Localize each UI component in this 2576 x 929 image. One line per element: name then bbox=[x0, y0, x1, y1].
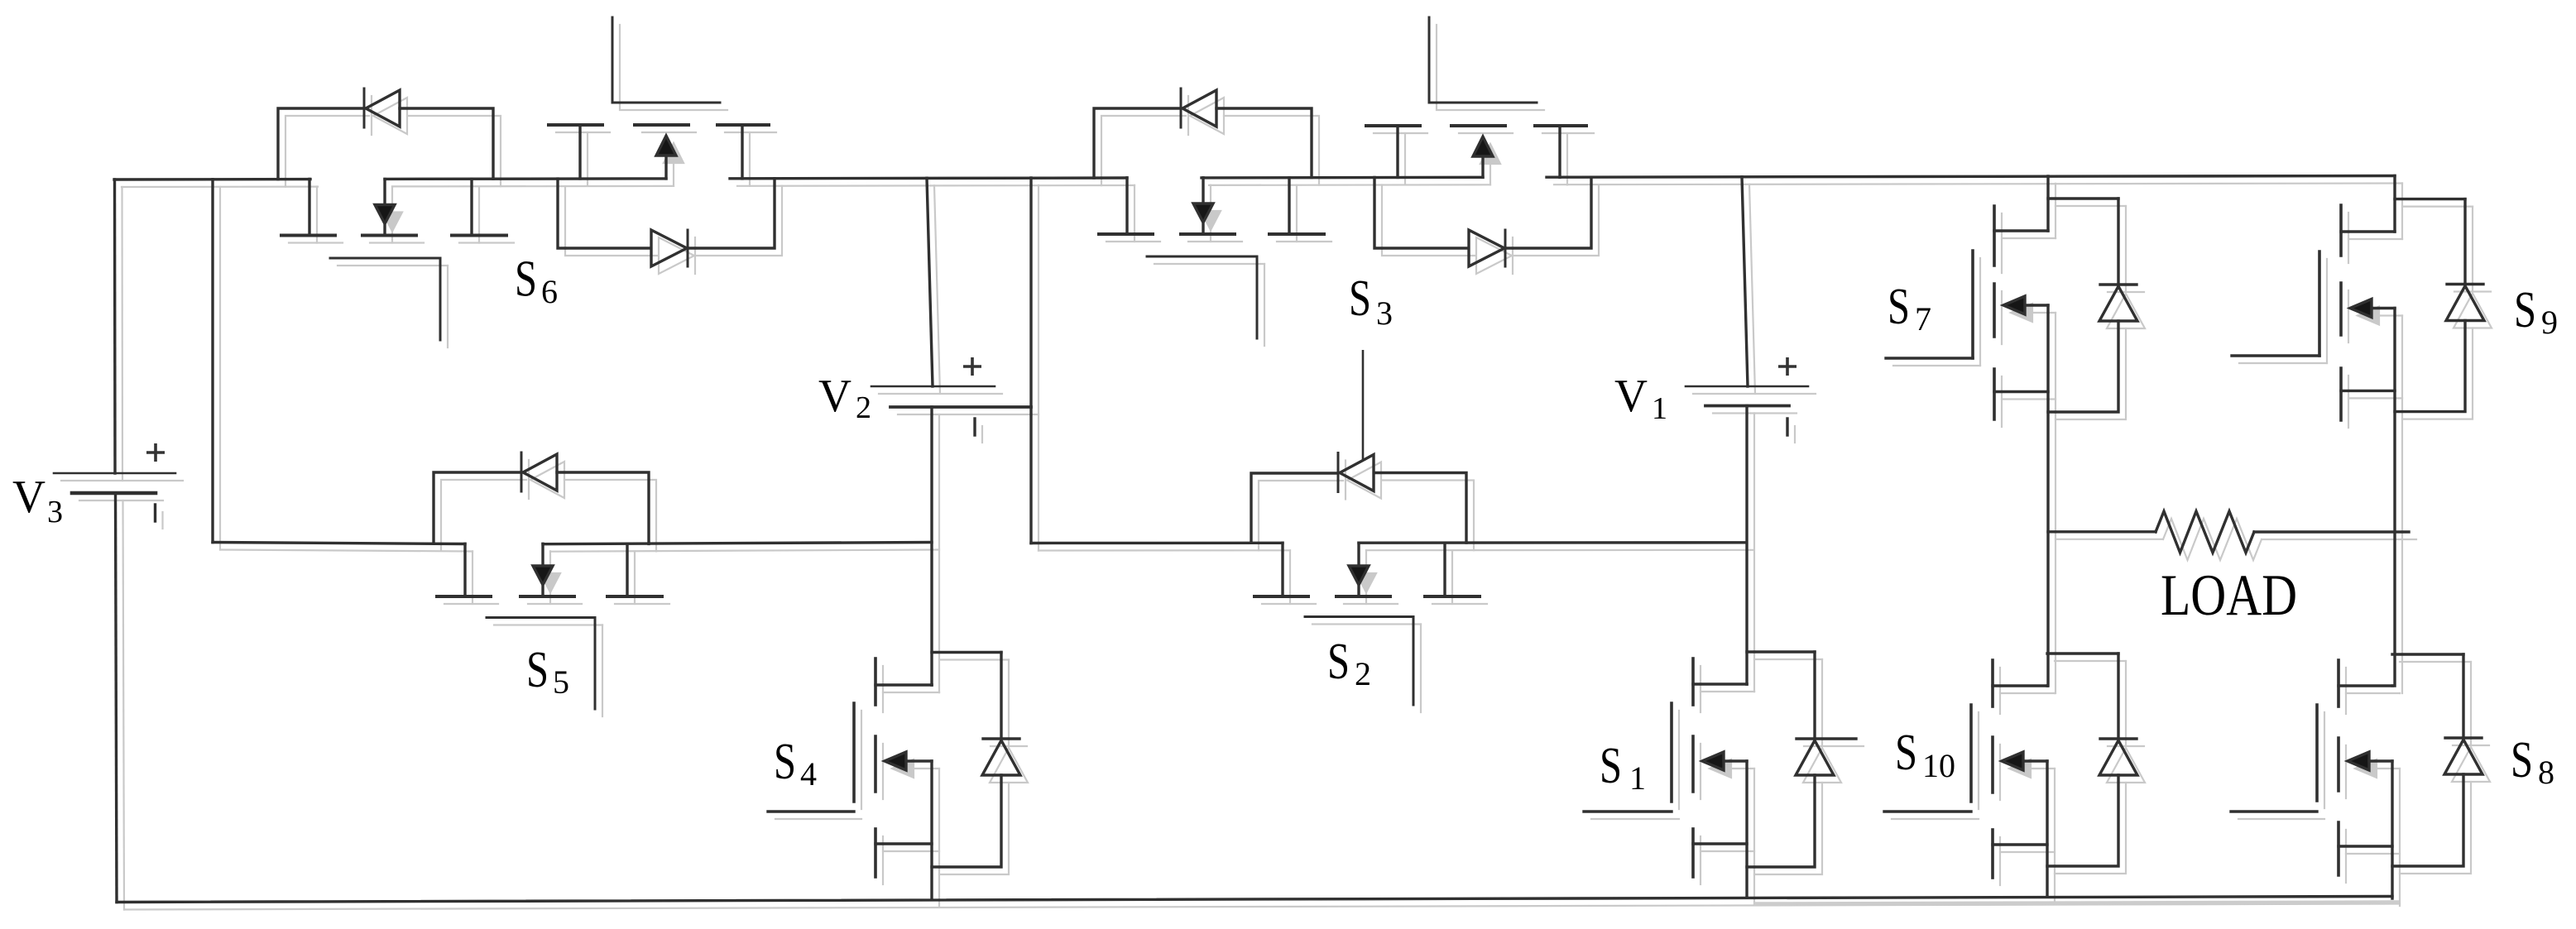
scan ghost of wire transistor S10 source leg bbox=[2054, 769, 2056, 904]
transistor S6 source bar bbox=[452, 234, 506, 237]
wire cell-2 mid feeder bbox=[1029, 178, 1032, 544]
wire V1 positive lead bbox=[1742, 177, 1748, 386]
wire transistor S9 diode bottom lead bbox=[2395, 321, 2465, 412]
scan ghost of transistor S10 diode cathode bar bbox=[2108, 745, 2144, 747]
wire transistor S3b (series switch) body lead bbox=[1481, 156, 1484, 177]
wire transistor S3 gate lead bbox=[1256, 256, 1259, 338]
transistor S4 diode lead bbox=[1000, 653, 1002, 740]
wire upper pair diode loop left (cell 2) bbox=[1374, 178, 1467, 249]
wire transistor S10 source lead bbox=[1993, 843, 2047, 845]
scan ghost of battery V1 negative plate bbox=[1713, 412, 1796, 414]
svg-text:8: 8 bbox=[2538, 754, 2554, 791]
scan ghost of transistor S4 diode triangle bbox=[990, 748, 1028, 783]
scan ghost of transistor S6 gate plate bbox=[338, 265, 448, 266]
wire cell-1 mid rail left bbox=[213, 543, 465, 544]
svg-text:6: 6 bbox=[541, 273, 558, 310]
scan ghost of transistor S1 channel segment 3 bbox=[1700, 836, 1701, 884]
wire transistor S6 gate lead bbox=[439, 258, 442, 340]
wire transistor S2 gate lead bbox=[1413, 617, 1415, 706]
scan ghost of wire S2 diode loop left bbox=[1259, 481, 1343, 550]
scan ghost of transistor S9 diode cathode bar bbox=[2454, 290, 2491, 292]
wire transistor S1 diode top branch bbox=[1747, 650, 1815, 653]
wire transistor S5 gate lead bbox=[594, 618, 597, 710]
scan ghost of transistor S1 diode triangle bbox=[1803, 748, 1841, 783]
scan ghost of wire cell-1 mid rail left bbox=[220, 550, 473, 552]
scan ghost of wire upper pair diode loop right (cell 1) bbox=[696, 186, 782, 256]
scan ghost of transistor S7 body arrow bbox=[2011, 304, 2032, 322]
scan ghost of wire transistor S8 drain lead bbox=[2399, 692, 2401, 694]
wire transistor S4 body lead bbox=[906, 759, 932, 762]
scan ghost of wire V2 positive lead bbox=[934, 185, 940, 394]
wire top rail segment 3 bbox=[730, 176, 1127, 180]
svg-text:3: 3 bbox=[47, 495, 63, 529]
transistor S4 diode cathode bar bbox=[983, 737, 1019, 740]
scan ghost of battery V2 positive plate bbox=[879, 393, 1002, 395]
transistor S9 diode triangle bbox=[2446, 286, 2484, 321]
scan ghost of battery V3 minus tick bbox=[161, 512, 163, 529]
wire transistor S8 source lead bbox=[2339, 845, 2392, 847]
scan ghost of transistor S6 source bar bbox=[459, 242, 514, 243]
svg-text:10: 10 bbox=[1922, 747, 1955, 784]
wire transistor S7 diode bottom lead bbox=[2048, 321, 2118, 412]
transistor S9 channel segment 2 bbox=[2339, 283, 2343, 335]
battery V2 plus sign bbox=[963, 357, 981, 376]
scan ghost of wire transistor S9 gate lead bbox=[2239, 362, 2327, 364]
scan ghost of wire transistor S10 diode top branch bbox=[2055, 660, 2126, 662]
scan ghost of transistor S1 channel segment 1 bbox=[1700, 666, 1701, 712]
transistor S3 body bar bbox=[1181, 232, 1235, 236]
wire cell-1 mid rail right bbox=[543, 543, 932, 544]
scan ghost of battery V1 minus tick bbox=[1794, 426, 1796, 443]
transistor S3 source bar bbox=[1269, 232, 1324, 236]
scan ghost of wire transistor S3b (series switch) body lead bbox=[1489, 164, 1491, 184]
transistor S3 drain bar bbox=[1099, 232, 1153, 236]
transistor S10 diode triangle bbox=[2099, 740, 2137, 775]
scan ghost of transistor S6 body arrow bbox=[382, 213, 402, 232]
scan ghost of wire top rail segment 2 bbox=[392, 185, 674, 188]
transistor S6b (series switch) body bar bbox=[635, 123, 688, 127]
wire transistor S1 drain lead bbox=[1745, 682, 1748, 685]
wire bottom rail scan ghost bbox=[1754, 903, 2399, 904]
scan ghost of transistor S8 gate bar bbox=[2324, 712, 2325, 808]
wire transistor S9 body lead bbox=[2372, 307, 2395, 309]
battery V3 negative plate bbox=[72, 491, 156, 496]
wire transistor S10 source leg bbox=[2046, 761, 2048, 897]
scan ghost of transistor S6 drain bar bbox=[289, 242, 343, 243]
scan ghost of wire top rail segment 4 bbox=[1209, 184, 1490, 186]
scan ghost of diode D6 cathode bar bbox=[371, 96, 372, 135]
wire transistor S7 source lead bbox=[1994, 390, 2048, 393]
scan ghost of wire LOAD right lead bbox=[2262, 539, 2416, 540]
scan ghost of transistor S4 channel segment 2 bbox=[882, 744, 884, 799]
scan ghost of transistor S10 channel segment 3 bbox=[1999, 837, 2001, 885]
wire top rail segment 4 bbox=[1202, 176, 1483, 180]
transistor S8 channel segment 2 bbox=[2337, 738, 2340, 791]
scan ghost of transistor S6b (series switch) body arrow bbox=[664, 143, 684, 163]
wire transistor S4 drain connection bbox=[875, 683, 932, 686]
scan ghost of wire transistor S10 source lead bbox=[2000, 851, 2055, 853]
scan ghost of wire transistor S8 source leg bbox=[2399, 769, 2401, 906]
scan ghost of transistor S10 diode lead bbox=[2125, 661, 2127, 746]
transistor S1 gate bar bbox=[1670, 703, 1673, 802]
wire S2 diode loop left bbox=[1251, 473, 1336, 543]
transistor S8 body arrow bbox=[2348, 752, 2369, 770]
battery V1 positive plate bbox=[1686, 385, 1808, 388]
scan ghost of diode D3 cathode bar bbox=[1187, 96, 1189, 135]
scan ghost of wire S2 diode loop right bbox=[1382, 481, 1474, 551]
scan ghost of battery V1 positive plate bbox=[1693, 393, 1816, 395]
scan ghost of diode D3b triangle bbox=[1476, 237, 1512, 274]
wire transistor S4 source leg bbox=[930, 761, 933, 898]
transistor S10 diode lead bbox=[2117, 654, 2119, 739]
scan ghost of transistor S1 diode lead bbox=[1821, 659, 1823, 746]
transistor S7 diode cathode bar bbox=[2100, 283, 2137, 285]
scan ghost of wire V3 positive lead bbox=[121, 187, 123, 481]
transistor S9 channel segment 3 bbox=[2339, 368, 2343, 420]
wire V3 negative lead bbox=[116, 493, 118, 903]
scan ghost of transistor S3b (series switch) body arrow bbox=[1480, 144, 1500, 164]
wire transistor S1 body lead bbox=[1724, 759, 1747, 762]
scan ghost of wire transistor S3 gate lead bbox=[1264, 264, 1265, 346]
transistor S10 body arrow bbox=[2002, 752, 2023, 770]
transistor S8 channel segment 3 bbox=[2337, 822, 2340, 875]
battery V1 plus sign bbox=[1778, 357, 1796, 376]
wire transistor S9 drain lead bbox=[2393, 176, 2396, 232]
battery V2 minus tick bbox=[973, 419, 976, 435]
scan ghost of transistor S9 channel segment 1 bbox=[2348, 213, 2349, 263]
scan ghost of wire transistor S7 source leg bbox=[2055, 313, 2056, 693]
wire transistor S7 source leg bbox=[2046, 305, 2049, 686]
wire transistor S6b (series switch) drain lead bbox=[578, 125, 581, 179]
svg-text:S: S bbox=[1349, 271, 1371, 327]
wire transistor S4 diode top branch bbox=[932, 651, 1001, 654]
wire transistor S7 diode top branch bbox=[2048, 197, 2118, 199]
battery V3 minus tick bbox=[154, 505, 156, 521]
scan ghost of wire transistor S10 drain connection bbox=[2000, 692, 2055, 694]
scan ghost of wire transistor S7 drain connection bbox=[2002, 237, 2056, 239]
scan ghost of wire S3 diode loop left bbox=[1101, 116, 1186, 185]
svg-text:V: V bbox=[12, 472, 46, 523]
scan ghost of wire transistor S5 body lead bbox=[549, 551, 551, 573]
transistor S4 channel segment 2 bbox=[874, 736, 877, 792]
scan ghost of transistor S6b (series switch) drain bar bbox=[556, 132, 610, 133]
transistor S7 gate bar bbox=[1971, 251, 1974, 358]
scan ghost of transistor S2 source bar bbox=[1432, 603, 1487, 605]
wire transistor S9 gate lead bbox=[2232, 354, 2319, 357]
scan ghost of transistor S5 body arrow bbox=[540, 573, 560, 592]
wire top rail segment 2 bbox=[385, 177, 666, 180]
transistor S6 gate plate bbox=[330, 257, 440, 260]
wire transistor S2 source lead bbox=[1443, 543, 1446, 596]
scan ghost of diode D2 triangle bbox=[1347, 462, 1381, 499]
svg-text:1: 1 bbox=[1629, 759, 1646, 797]
scan ghost of battery V2 negative plate bbox=[898, 414, 1039, 415]
transistor S7 channel segment 2 bbox=[1993, 284, 1996, 337]
scan ghost of transistor S4 gate bar bbox=[861, 711, 862, 809]
scan ghost of wire V3 negative lead bbox=[123, 500, 125, 910]
scan ghost of transistor S1 diode cathode bar bbox=[1804, 745, 1864, 747]
svg-text:S: S bbox=[1327, 634, 1350, 690]
transistor S5 body arrow bbox=[533, 566, 553, 585]
scan ghost of transistor S3 gate plate bbox=[1154, 263, 1264, 265]
scan ghost of wire S5 diode loop right bbox=[564, 480, 656, 551]
scan ghost of wire transistor S4 gate lead bbox=[775, 818, 861, 820]
scan ghost of wire transistor S9 source leg bbox=[2401, 316, 2403, 694]
scan ghost of wire transistor S5 gate lead bbox=[602, 625, 603, 717]
scan ghost of wire transistor S8 drain connection bbox=[2346, 692, 2400, 694]
wire S3 diode loop left bbox=[1094, 108, 1178, 178]
diode D6 triangle bbox=[366, 90, 400, 127]
scan ghost of wire upper pair diode loop right (cell 2) bbox=[1513, 184, 1599, 256]
svg-text:V: V bbox=[1614, 371, 1648, 422]
wire transistor S3 drain lead bbox=[1125, 178, 1128, 234]
transistor S1 diode triangle bbox=[1796, 740, 1834, 775]
svg-text:V: V bbox=[818, 371, 851, 422]
label line S3 pointer bbox=[1362, 350, 1365, 460]
wire transistor S7 drain connection bbox=[1994, 229, 2048, 232]
wire cell-1 mid feeder bbox=[211, 180, 213, 543]
scan ghost of battery V2 minus tick bbox=[981, 426, 983, 443]
wire transistor S6 drain lead bbox=[308, 180, 310, 236]
transistor S9 body arrow bbox=[2350, 299, 2372, 318]
scan ghost of wire cell-2 mid rail right bbox=[1366, 549, 1753, 552]
svg-text:S: S bbox=[526, 642, 549, 698]
scan ghost of wire S3 diode loop right bbox=[1224, 116, 1319, 185]
svg-text:S: S bbox=[1895, 725, 1917, 781]
wire transistor S1 source leg bbox=[1745, 761, 1748, 898]
transistor S5 drain bar bbox=[437, 595, 491, 598]
scan ghost of transistor S8 diode lead bbox=[2470, 662, 2472, 745]
scan ghost of transistor S4 diode cathode bar bbox=[991, 745, 1027, 747]
transistor S8 gate bar bbox=[2315, 705, 2319, 801]
scan ghost of transistor S3 body arrow bbox=[1201, 211, 1221, 230]
transistor S8 diode triangle bbox=[2444, 740, 2482, 774]
scan ghost of wire transistor S1 diode bottom lead bbox=[1754, 783, 1822, 874]
scan ghost of transistor S9 channel segment 3 bbox=[2348, 376, 2349, 428]
scan ghost of wire transistor S5 drain lead bbox=[472, 551, 473, 604]
transistor S9 channel segment 1 bbox=[2339, 205, 2343, 256]
transistor S6 body bar bbox=[362, 234, 416, 237]
wire transistor S7 drain lead bbox=[2046, 176, 2049, 231]
scan ghost of transistor S2 body bar bbox=[1344, 603, 1398, 605]
battery V1 minus tick bbox=[1786, 419, 1788, 435]
transistor S7 diode lead bbox=[2117, 199, 2119, 285]
scan ghost of transistor S7 channel segment 3 bbox=[2001, 376, 2003, 427]
wire transistor S10 drain connection bbox=[1993, 684, 2047, 687]
scan ghost of diode D6b cathode bar bbox=[694, 237, 696, 274]
scan ghost of transistor S7 diode cathode bar bbox=[2108, 291, 2144, 293]
scan ghost of wire top rail segment 5 bbox=[1554, 184, 2402, 185]
scan ghost of wire cell-2 mid rail left bbox=[1039, 549, 1290, 551]
transistor S4 channel segment 3 bbox=[874, 829, 877, 877]
scan ghost of transistor S9 body arrow bbox=[2358, 307, 2379, 325]
scan ghost of transistor S9 diode lead bbox=[2472, 207, 2473, 292]
scan ghost of transistor S7 channel segment 2 bbox=[2001, 291, 2003, 344]
wire transistor S9 diode top branch bbox=[2395, 198, 2465, 200]
wire LOAD left lead bbox=[2048, 530, 2156, 533]
diode D3b triangle bbox=[1469, 230, 1504, 266]
svg-text:2: 2 bbox=[1355, 655, 1371, 692]
scan ghost of wire transistor S9 source lead bbox=[2348, 397, 2402, 399]
wire upper pair diode loop right (cell 2) bbox=[1506, 177, 1591, 248]
scan ghost of diode D6 triangle bbox=[373, 98, 407, 134]
scan ghost of wire transistor S1 body lead bbox=[1731, 768, 1754, 769]
wire transistor S6 source lead bbox=[470, 180, 473, 236]
scan ghost of wire transistor S6 drain lead bbox=[316, 187, 318, 243]
transistor S10 channel segment 1 bbox=[1991, 660, 1994, 706]
wire S5 diode loop right bbox=[557, 472, 649, 544]
scan ghost of wire S6 diode loop right bbox=[407, 116, 501, 186]
scan ghost of transistor S3 drain bar bbox=[1106, 241, 1160, 242]
transistor S3 gate plate bbox=[1147, 256, 1257, 258]
transistor S8 channel segment 1 bbox=[2337, 660, 2340, 706]
transistor S3b (series switch) drain bar bbox=[1366, 124, 1420, 127]
transistor S1 channel segment 3 bbox=[1691, 829, 1695, 877]
transistor S2 gate plate bbox=[1305, 615, 1413, 618]
wire S5 diode loop left bbox=[434, 472, 519, 544]
scan ghost of transistor S5 body bar bbox=[528, 603, 582, 605]
scan ghost of wire transistor S2 drain lead bbox=[1289, 550, 1291, 604]
scan ghost of transistor S9 diode triangle bbox=[2454, 294, 2492, 328]
svg-text:S: S bbox=[1888, 279, 1910, 335]
transistor S3b (series switch) body bar bbox=[1451, 124, 1505, 127]
wire top rail segment 5 bbox=[1547, 176, 2395, 178]
scan ghost of wire transistor S4 body lead bbox=[914, 768, 939, 769]
wire transistor S4 drain lead bbox=[930, 683, 933, 686]
scan ghost of transistor S10 channel segment 2 bbox=[1999, 745, 2001, 800]
scan ghost of wire transistor S4 diode top branch bbox=[939, 658, 1009, 660]
wire transistor S9 drain connection bbox=[2341, 230, 2395, 232]
scan ghost of transistor S10 gate bar bbox=[1978, 712, 1979, 809]
scan ghost of wire S6 diode loop left bbox=[285, 116, 369, 187]
scan ghost of transistor S9 gate bar bbox=[2326, 259, 2328, 363]
wire top rail segment 1 bbox=[114, 178, 310, 181]
svg-text:9: 9 bbox=[2541, 304, 2558, 341]
transistor S4 gate bar bbox=[852, 703, 856, 802]
transistor S5 body bar bbox=[520, 595, 574, 598]
scan ghost of transistor S4 diode lead bbox=[1008, 660, 1010, 747]
wire V1 negative lead bbox=[1745, 406, 1748, 685]
transistor S10 gate bar bbox=[1969, 705, 1973, 802]
scan ghost of transistor S10 channel segment 1 bbox=[1999, 668, 2001, 714]
wire cell-2 mid rail left bbox=[1031, 542, 1283, 545]
scan ghost of transistor S7 channel segment 1 bbox=[2001, 213, 2003, 273]
transistor S4 body arrow bbox=[885, 752, 906, 770]
wire S3 diode loop right bbox=[1216, 108, 1312, 178]
scan ghost of wire transistor S6b (series switch) drain lead bbox=[587, 132, 588, 186]
diode D6 cathode bar bbox=[363, 89, 366, 127]
svg-text:S: S bbox=[2514, 282, 2536, 338]
scan ghost of wire transistor S4 drain connection bbox=[883, 692, 939, 693]
svg-text:S: S bbox=[2511, 732, 2533, 788]
transistor S1 diode cathode bar bbox=[1796, 737, 1856, 740]
wire transistor S4 source lead bbox=[875, 842, 932, 845]
scan ghost of wire transistor S3 body lead bbox=[1210, 185, 1211, 211]
scan ghost of wire transistor S3b (series switch) source lead bbox=[1566, 133, 1568, 184]
scan ghost of diode D2 cathode bar bbox=[1345, 461, 1346, 500]
wire transistor S3 source lead bbox=[1288, 178, 1290, 234]
scan ghost of wire transistor S7 drain lead bbox=[2055, 184, 2056, 238]
scan ghost of wire V1 negative lead bbox=[1753, 414, 1755, 692]
scan ghost of transistor S5 drain bar bbox=[444, 603, 498, 605]
scan ghost of resistor LOAD bbox=[2163, 519, 2262, 560]
scan ghost of transistor S3b (series switch) body bar bbox=[1459, 132, 1513, 134]
wire S6 diode loop left bbox=[278, 108, 362, 180]
wire transistor S6 body lead bbox=[383, 180, 386, 205]
scan ghost of wire top rail segment 3 bbox=[737, 184, 1134, 187]
scan ghost of wire upper pair diode loop left (cell 1) bbox=[565, 186, 658, 256]
transistor S2 source bar bbox=[1425, 595, 1480, 598]
diode D2 cathode bar bbox=[1337, 453, 1340, 492]
wire transistor S8 body lead bbox=[2369, 759, 2392, 762]
scan ghost of wire transistor S5 source lead bbox=[634, 551, 636, 604]
svg-text:S: S bbox=[774, 734, 796, 790]
scan ghost of wire transistor S4 source leg bbox=[938, 769, 940, 906]
scan ghost of transistor S3b (series switch) gate lead bbox=[1437, 25, 1544, 110]
scan ghost of transistor S3b (series switch) drain bar bbox=[1374, 132, 1427, 134]
wire transistor S10 diode bottom lead bbox=[2047, 775, 2118, 866]
wire transistor S7 gate lead bbox=[1886, 357, 1973, 359]
scan ghost of transistor S2 body arrow bbox=[1356, 573, 1376, 592]
scan ghost of transistor S8 channel segment 2 bbox=[2345, 745, 2347, 798]
transistor S8 diode cathode bar bbox=[2445, 736, 2482, 739]
wire transistor S3b (series switch) source lead bbox=[1558, 126, 1561, 177]
scan ghost of wire transistor S6b (series switch) source lead bbox=[749, 132, 751, 186]
scan ghost of wire transistor S4 diode bottom lead bbox=[939, 783, 1009, 874]
wire transistor S8 diode top branch bbox=[2392, 653, 2463, 655]
scan ghost of transistor S10 diode triangle bbox=[2107, 748, 2145, 783]
scan ghost of wire cell-2 mid feeder bbox=[1038, 185, 1039, 551]
wire transistor S10 gate lead bbox=[1884, 810, 1971, 812]
diode D6b cathode bar bbox=[687, 230, 689, 266]
battery V3 plus sign bbox=[146, 443, 165, 462]
transistor S2 body bar bbox=[1336, 595, 1390, 598]
wire transistor S2 body lead bbox=[1357, 543, 1360, 566]
scan ghost of wire transistor S10 diode bottom lead bbox=[2055, 783, 2126, 874]
transistor S5 source bar bbox=[607, 595, 662, 598]
svg-text:3: 3 bbox=[1376, 295, 1393, 332]
wire transistor S6b (series switch) body lead bbox=[664, 156, 667, 179]
scan ghost of wire transistor S1 gate lead bbox=[1591, 818, 1679, 820]
scan ghost of wire bottom rail bbox=[124, 904, 2400, 910]
scan ghost of wire transistor S6 gate lead bbox=[447, 266, 449, 347]
wire transistor S9 source leg bbox=[2393, 309, 2396, 687]
scan ghost of wire top rail segment 1 bbox=[122, 186, 318, 189]
wire transistor S9 source lead bbox=[2341, 390, 2395, 392]
wire transistor S4 diode bottom lead bbox=[932, 775, 1001, 867]
scan ghost of transistor S9 channel segment 2 bbox=[2348, 290, 2349, 342]
wire transistor S6b (series switch) source lead bbox=[741, 125, 743, 179]
scan ghost of wire transistor S2 body lead bbox=[1365, 550, 1367, 573]
transistor S6 drain bar bbox=[281, 234, 335, 237]
scan ghost of transistor S3 source bar bbox=[1277, 241, 1331, 242]
wire transistor S1 source lead bbox=[1693, 842, 1747, 845]
transistor S7 channel segment 3 bbox=[1993, 369, 1996, 419]
diode D3 triangle bbox=[1182, 90, 1216, 127]
transistor S1 channel segment 2 bbox=[1691, 736, 1695, 792]
battery V3 positive plate bbox=[54, 472, 175, 475]
wire S6 diode loop right bbox=[400, 108, 493, 179]
scan ghost of transistor S5 source bar bbox=[615, 603, 669, 605]
wire upper pair diode loop right (cell 1) bbox=[688, 179, 775, 248]
transistor S6b (series switch) drain bar bbox=[549, 123, 602, 127]
scan ghost of wire transistor S6 source lead bbox=[478, 187, 480, 243]
scan ghost of transistor S4 channel segment 1 bbox=[882, 666, 884, 712]
wire transistor S5 drain lead bbox=[463, 544, 466, 596]
wire transistor S8 source leg bbox=[2391, 761, 2393, 898]
transistor S10 channel segment 2 bbox=[1991, 737, 1994, 793]
scan ghost of wire transistor S1 drain lead bbox=[1753, 691, 1755, 692]
